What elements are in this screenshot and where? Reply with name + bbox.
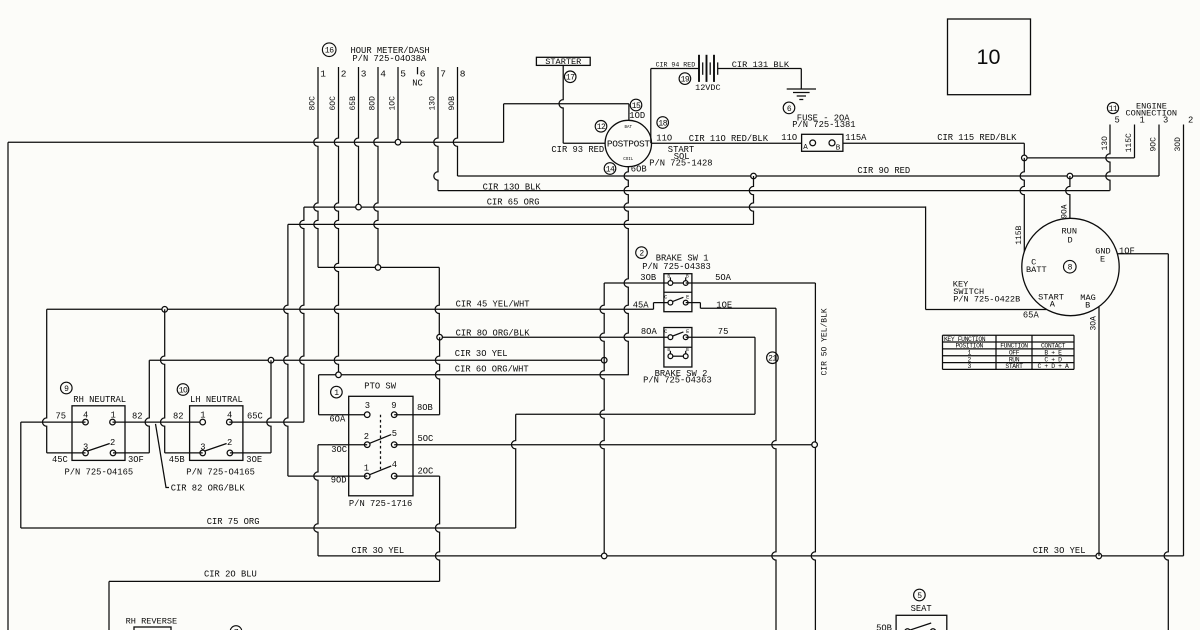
wire 10F from key switch GND: [1117, 253, 1168, 255]
svg-text:C: C: [664, 329, 667, 335]
svg-text:65C: 65C: [247, 411, 263, 421]
svg-text:10: 10: [977, 45, 1001, 69]
wire CIR 20 BLU run: [109, 580, 440, 582]
svg-text:CIR 75 ORG: CIR 75 ORG: [207, 517, 260, 527]
svg-text:CIR 2O BLU: CIR 2O BLU: [204, 569, 257, 579]
svg-text:D: D: [1068, 236, 1073, 246]
svg-text:65B: 65B: [349, 96, 358, 111]
svg-text:B: B: [836, 145, 841, 153]
engine pin 1 wire 115C: [1134, 125, 1136, 158]
wire 115B drop to key switch BATT: [1020, 158, 1024, 252]
svg-text:CIR 8O ORG/BLK: CIR 8O ORG/BLK: [456, 328, 531, 338]
svg-text:CIR 3O YEL: CIR 3O YEL: [1033, 546, 1086, 556]
hour meter pin 2 wire 60C: [334, 67, 338, 375]
svg-text:82: 82: [173, 411, 184, 421]
svg-text:2: 2: [227, 438, 232, 448]
wire 90D branch drop x=287.9 to PTO: [284, 224, 288, 476]
svg-text:5: 5: [392, 429, 397, 439]
wire 30F riser from RH neutral: [145, 360, 149, 453]
wire 75 drop x=755: [754, 337, 756, 414]
svg-text:1: 1: [320, 68, 326, 79]
svg-text:2: 2: [364, 432, 369, 442]
svg-text:8: 8: [460, 68, 466, 79]
svg-text:1OF: 1OF: [1119, 246, 1135, 256]
wire CIR 130 BLK run: [438, 190, 1110, 192]
hour meter / dash connector U16 header: [322, 43, 336, 57]
wire starter drop to CIR 93 RED: [559, 65, 563, 143]
svg-text:7: 7: [440, 68, 446, 79]
svg-text:CIR 13O BLK: CIR 13O BLK: [483, 182, 542, 192]
wire step-up corner vertical x=503.6 between y=142.2 and y=103.8: [503, 104, 505, 142]
wire 45B drop to LH neutral: [161, 309, 165, 453]
svg-text:75: 75: [56, 411, 67, 421]
wire 50A drop to 50 junction and seat: [811, 283, 815, 630]
svg-text:2: 2: [1188, 116, 1193, 126]
LH neutral switch S10: [177, 384, 189, 396]
svg-text:1: 1: [111, 410, 116, 420]
svg-text:3OC: 3OC: [331, 445, 347, 455]
node junction CIR30 lower / 30B riser: [601, 553, 607, 559]
svg-text:11O: 11O: [781, 133, 797, 143]
node junction CIR90 to 90A key switch: [1067, 173, 1073, 179]
svg-text:NC: NC: [412, 78, 423, 88]
wire CIR 65 ORG run: [304, 206, 926, 208]
svg-text:5: 5: [1115, 116, 1120, 126]
node junction CIR30 lower / 30A key switch: [1096, 553, 1102, 559]
svg-text:CIR 94 RED: CIR 94 RED: [656, 61, 696, 68]
svg-text:1OE: 1OE: [716, 301, 732, 311]
svg-text:115B: 115B: [1015, 225, 1024, 244]
svg-text:1: 1: [1140, 116, 1145, 126]
wire 90D branch drop x=753.5: [749, 176, 753, 224]
svg-text:RH REVERSE: RH REVERSE: [126, 616, 178, 626]
hour meter pin 7 wire 130: [434, 67, 438, 191]
wire CIR 60 ORG/WHT run: [319, 374, 629, 376]
svg-text:6: 6: [787, 105, 792, 114]
svg-text:E: E: [686, 294, 689, 300]
svg-text:13O: 13O: [1101, 136, 1110, 151]
svg-text:21: 21: [768, 355, 777, 364]
node junction 45B: [162, 307, 168, 313]
wire 10D feed y=103.8 from corner to POSTPOST top pin: [504, 103, 629, 105]
sheet number box 10: [948, 19, 1031, 95]
node junction CIR115 / 115B: [1022, 155, 1028, 161]
wire 75 drop x=515.7 to CIR 75 ORG: [512, 414, 516, 528]
wire 65C drop to LH neutral: [300, 207, 304, 422]
svg-text:1OC: 1OC: [389, 96, 398, 111]
svg-text:P/N 725-1716: P/N 725-1716: [349, 499, 412, 509]
svg-text:6OA: 6OA: [329, 415, 346, 425]
svg-text:8OB: 8OB: [417, 403, 433, 413]
svg-text:9OC: 9OC: [1150, 137, 1159, 152]
wire CIR 115 RED/BLK lower run to engine pin1: [1024, 157, 1134, 159]
wire 80B from PTO pin9: [394, 414, 439, 416]
wire 20C from PTO pin4: [394, 475, 439, 477]
svg-text:115C: 115C: [1125, 133, 1134, 152]
svg-text:3: 3: [83, 442, 88, 452]
ground symbol: [800, 69, 802, 90]
svg-text:45A: 45A: [633, 301, 650, 311]
RH neutral switch S9: [61, 382, 73, 394]
svg-text:CIR 65 ORG: CIR 65 ORG: [487, 197, 540, 207]
wire CIR 115 RED/BLK fuse to corner: [843, 142, 1024, 144]
svg-text:3: 3: [968, 363, 972, 370]
hour meter pin 6 NC stub: [417, 67, 419, 74]
svg-text:82: 82: [132, 411, 143, 421]
wire CIR 30 YEL lower run: [318, 555, 1184, 557]
wire hour-meter bus y=142 from left border to step-up corner: [8, 141, 504, 143]
svg-text:3: 3: [365, 401, 370, 411]
node junction pin4 80D: [375, 265, 381, 271]
node junction CIR90 to 90D branch: [751, 173, 757, 179]
wire 50C from PTO pin5: [394, 444, 814, 446]
wire CIR 115 drop to junction: [1023, 143, 1025, 158]
hour meter pin 1 wire 80C: [314, 67, 318, 267]
wire 30A key switch MAG drop: [1098, 307, 1100, 556]
fuse F6 20A: [783, 102, 795, 114]
svg-text:2: 2: [341, 68, 347, 79]
wire CIR 110 RED/BLK solenoid to fuse: [652, 142, 802, 144]
svg-text:5: 5: [917, 592, 922, 601]
brake switch 1 S2: [636, 247, 648, 259]
wire 45C drop to RH neutral: [43, 309, 47, 453]
svg-text:14: 14: [606, 165, 615, 174]
wire 45B into LH pin3: [165, 452, 203, 454]
wire 30C from PTO pin2: [318, 444, 367, 446]
svg-text:65A: 65A: [1023, 311, 1040, 321]
svg-text:8OD: 8OD: [369, 96, 378, 111]
engine pin 2 wire 30D: [1183, 125, 1185, 556]
wire CIR 30 YEL upper run: [149, 359, 604, 361]
svg-text:3OB: 3OB: [640, 273, 656, 283]
wire 45A jog into brake sw 1: [653, 303, 655, 310]
wire 75 drop to CIR 75 ORG: [20, 422, 22, 528]
svg-text:CIR 11O RED/BLK: CIR 11O RED/BLK: [689, 134, 769, 144]
key switch S8 body: [1022, 218, 1119, 315]
svg-text:4: 4: [227, 410, 232, 420]
svg-text:3: 3: [200, 442, 205, 452]
svg-text:12: 12: [597, 123, 606, 132]
wire CIR 90 RED main run: [458, 175, 1160, 177]
svg-text:CIR 115 RED/BLK: CIR 115 RED/BLK: [937, 133, 1017, 143]
wire 30B run into brake sw 1: [604, 282, 670, 284]
node junction pin2 60C: [336, 372, 342, 378]
wire battery positive drop to CIR 110: [650, 69, 652, 144]
svg-text:P/N 725-1381: P/N 725-1381: [792, 120, 855, 130]
wire 65A riser to key switch: [925, 206, 927, 309]
engine connection P11: [1107, 102, 1118, 113]
wire 75 into RH neutral: [21, 421, 86, 423]
svg-text:19: 19: [681, 75, 690, 84]
hour meter pin 4 wire 80D: [374, 67, 378, 267]
hour meter pin 3 wire 65B: [354, 67, 358, 207]
seat switch S5: [914, 589, 926, 601]
svg-text:C: C: [664, 294, 667, 300]
svg-text:SEAT: SEAT: [911, 604, 932, 614]
svg-text:CIR 45 YEL/WHT: CIR 45 YEL/WHT: [456, 300, 530, 310]
svg-text:3OD: 3OD: [1174, 137, 1183, 152]
wire 10F drop off-canvas: [1164, 254, 1168, 630]
svg-text:B: B: [686, 273, 689, 279]
svg-text:8OA: 8OA: [641, 327, 658, 337]
svg-text:9OB: 9OB: [448, 96, 457, 111]
svg-text:5OA: 5OA: [715, 273, 732, 283]
svg-text:8: 8: [1068, 264, 1073, 273]
node junction 50A/50C/50B: [812, 442, 818, 448]
wire 90A drop to key switch RUN: [1066, 176, 1070, 218]
svg-text:START: START: [1005, 363, 1023, 370]
wire 80 link drop x=439.3 to CIR 80: [435, 267, 439, 337]
wire 90D branch run y=224.4: [288, 223, 754, 225]
svg-text:RH NEUTRAL: RH NEUTRAL: [73, 395, 126, 405]
node junction CIR30 upper / 30B riser: [601, 357, 607, 363]
svg-text:P/N 725-O422B: P/N 725-O422B: [953, 294, 1020, 304]
svg-text:C + D + A: C + D + A: [1038, 363, 1069, 370]
wire 65C from LH pin4: [229, 421, 304, 423]
svg-text:18: 18: [658, 119, 667, 128]
svg-text:8OC: 8OC: [309, 96, 318, 111]
wire 80C/80D link y=267.4: [318, 266, 439, 268]
svg-text:CIR 82 ORG/BLK: CIR 82 ORG/BLK: [171, 484, 246, 494]
wire CIR 75 ORG run: [21, 527, 516, 529]
svg-text:B: B: [667, 273, 670, 279]
svg-text:CIR 5O YEL/BLK: CIR 5O YEL/BLK: [821, 308, 830, 375]
wire 50A from brake sw1 to drop: [686, 282, 816, 284]
svg-text:3OA: 3OA: [1089, 316, 1098, 331]
svg-text:5OC: 5OC: [418, 434, 434, 444]
node junction CIR80 / 80B: [437, 334, 443, 340]
svg-text:3OF: 3OF: [128, 455, 144, 465]
wire solenoid coil 60B drop to CIR 60 ORG/WHT: [624, 167, 628, 375]
svg-text:115A: 115A: [845, 133, 867, 143]
wire pin8 corner riser 90B: [457, 175, 459, 177]
wire 45C into RH pin3: [47, 452, 86, 454]
svg-text:45B: 45B: [169, 455, 185, 465]
wire 10E from brake sw1: [686, 302, 701, 304]
wire CIR 93 RED into solenoid post: [563, 142, 605, 144]
svg-text:9: 9: [64, 385, 69, 394]
svg-text:E: E: [1100, 255, 1105, 265]
wire POSTPOST top pin 10D vertical: [628, 104, 630, 121]
wire left border vertical from hour-meter bus down off-canvas: [7, 142, 9, 630]
svg-text:A: A: [803, 144, 808, 152]
svg-text:LH NEUTRAL: LH NEUTRAL: [190, 395, 243, 405]
svg-text:CONNECTION: CONNECTION: [1126, 109, 1178, 119]
wire 82 link RH to LH: [113, 421, 203, 423]
svg-text:B: B: [1085, 301, 1090, 311]
wire 20C drop to CIR 20 BLU: [435, 476, 439, 581]
svg-text:P/N 725-O4O38A: P/N 725-O4O38A: [352, 54, 427, 64]
svg-text:BATT: BATT: [1026, 265, 1047, 275]
svg-text:1O: 1O: [179, 386, 188, 395]
wire 30E riser from LH neutral: [267, 360, 271, 453]
svg-text:CIR 9O RED: CIR 9O RED: [857, 166, 910, 176]
svg-text:1: 1: [364, 463, 369, 473]
wire CIR 80 ORG/BLK run: [440, 336, 671, 338]
svg-text:9: 9: [391, 401, 396, 411]
svg-text:COIL: COIL: [623, 158, 634, 162]
svg-text:P/N 725-O4165: P/N 725-O4165: [65, 468, 134, 478]
svg-text:17: 17: [566, 74, 575, 83]
svg-text:E: E: [686, 329, 689, 335]
start solenoid U12 POSTPOST body: [605, 120, 651, 166]
svg-text:P/N 725-O4383: P/N 725-O4383: [642, 262, 711, 272]
wire 30E from LH pin2: [230, 452, 271, 454]
wire 30C drop to CIR 30 YEL lower: [314, 445, 318, 556]
svg-text:1: 1: [200, 410, 205, 420]
svg-text:75: 75: [718, 327, 729, 337]
battery B19 12VDC: [679, 73, 691, 85]
svg-text:3: 3: [1163, 116, 1168, 126]
wire CIR 131 BLK battery to ground: [718, 68, 802, 70]
wire 90D into PTO pin1: [288, 475, 367, 477]
PTO switch S1: [331, 386, 343, 398]
svg-text:5: 5: [400, 68, 406, 79]
wire 10E drop off-canvas: [772, 308, 776, 630]
svg-text:2OC: 2OC: [418, 466, 434, 476]
starter block S17: [536, 57, 590, 65]
svg-text:3OE: 3OE: [246, 455, 262, 465]
svg-text:P/N 725-O4165: P/N 725-O4165: [186, 468, 255, 478]
svg-text:1: 1: [334, 389, 339, 398]
svg-text:CIR 3O YEL: CIR 3O YEL: [455, 349, 508, 359]
svg-text:A: A: [1050, 300, 1056, 310]
svg-text:9OA: 9OA: [1061, 204, 1070, 219]
key function table: [943, 334, 1075, 336]
hour meter pin 5 wire 10C: [397, 67, 399, 142]
svg-text:CIR 93 RED: CIR 93 RED: [551, 145, 604, 155]
brake switch 2 S21: [767, 352, 779, 364]
svg-text:11O: 11O: [656, 133, 672, 143]
svg-text:6OC: 6OC: [329, 96, 338, 111]
svg-text:CIR 131 BLK: CIR 131 BLK: [732, 60, 790, 70]
svg-text:9OD: 9OD: [331, 476, 347, 486]
svg-text:2: 2: [110, 438, 115, 448]
svg-text:B: B: [667, 347, 670, 353]
svg-text:4: 4: [380, 68, 386, 79]
svg-text:4: 4: [83, 410, 88, 420]
svg-text:16: 16: [325, 47, 334, 56]
svg-text:5OB: 5OB: [876, 624, 892, 630]
wire 75 run y=414.2: [516, 413, 755, 415]
svg-text:POSTPOST: POSTPOST: [607, 139, 650, 150]
svg-text:B: B: [686, 347, 689, 353]
svg-text:6OB: 6OB: [631, 165, 647, 175]
svg-text:P/N 725-O4363: P/N 725-O4363: [643, 375, 712, 385]
wire 65A run to key switch START: [926, 309, 1047, 311]
wire 80B riser from PTO: [435, 337, 439, 415]
svg-text:P/N 725-1428: P/N 725-1428: [649, 159, 712, 169]
wire 30B riser-drop x=604.2: [600, 283, 604, 556]
svg-text:3: 3: [361, 68, 367, 79]
wire 60A drop to PTO pin3: [318, 375, 320, 415]
svg-text:15: 15: [632, 102, 641, 111]
wire CIR 45 YEL/WHT run: [47, 308, 654, 310]
wire CIR 94 RED battery positive: [651, 68, 699, 70]
wire CIR 20 BLU drop to RH reverse: [108, 581, 110, 630]
svg-text:13O: 13O: [429, 96, 438, 111]
wire 30F from RH pin2: [113, 452, 149, 454]
engine pin 5 wire 130: [1106, 125, 1110, 191]
wire 75 from brake sw2: [686, 336, 755, 338]
hour meter pin 8 wire 90B: [453, 67, 457, 176]
node junction 30E: [268, 357, 274, 363]
svg-text:PTO SW: PTO SW: [364, 381, 396, 391]
svg-text:BAT: BAT: [625, 126, 633, 130]
node junction pin3 65B: [356, 204, 362, 210]
svg-text:CIR 3O YEL: CIR 3O YEL: [351, 546, 404, 556]
svg-text:2: 2: [639, 249, 644, 258]
svg-text:CIR 6O ORG/WHT: CIR 6O ORG/WHT: [455, 364, 529, 374]
svg-text:12VDC: 12VDC: [695, 83, 721, 93]
engine pin 3 wire 90C: [1158, 125, 1160, 177]
node pin5 junction on bus: [395, 139, 401, 145]
svg-text:45C: 45C: [52, 455, 68, 465]
svg-text:11: 11: [1109, 105, 1118, 114]
svg-text:4: 4: [392, 460, 397, 470]
svg-text:1OD: 1OD: [629, 111, 645, 121]
wire CIR 82 ORG/BLK leader: [156, 424, 170, 488]
